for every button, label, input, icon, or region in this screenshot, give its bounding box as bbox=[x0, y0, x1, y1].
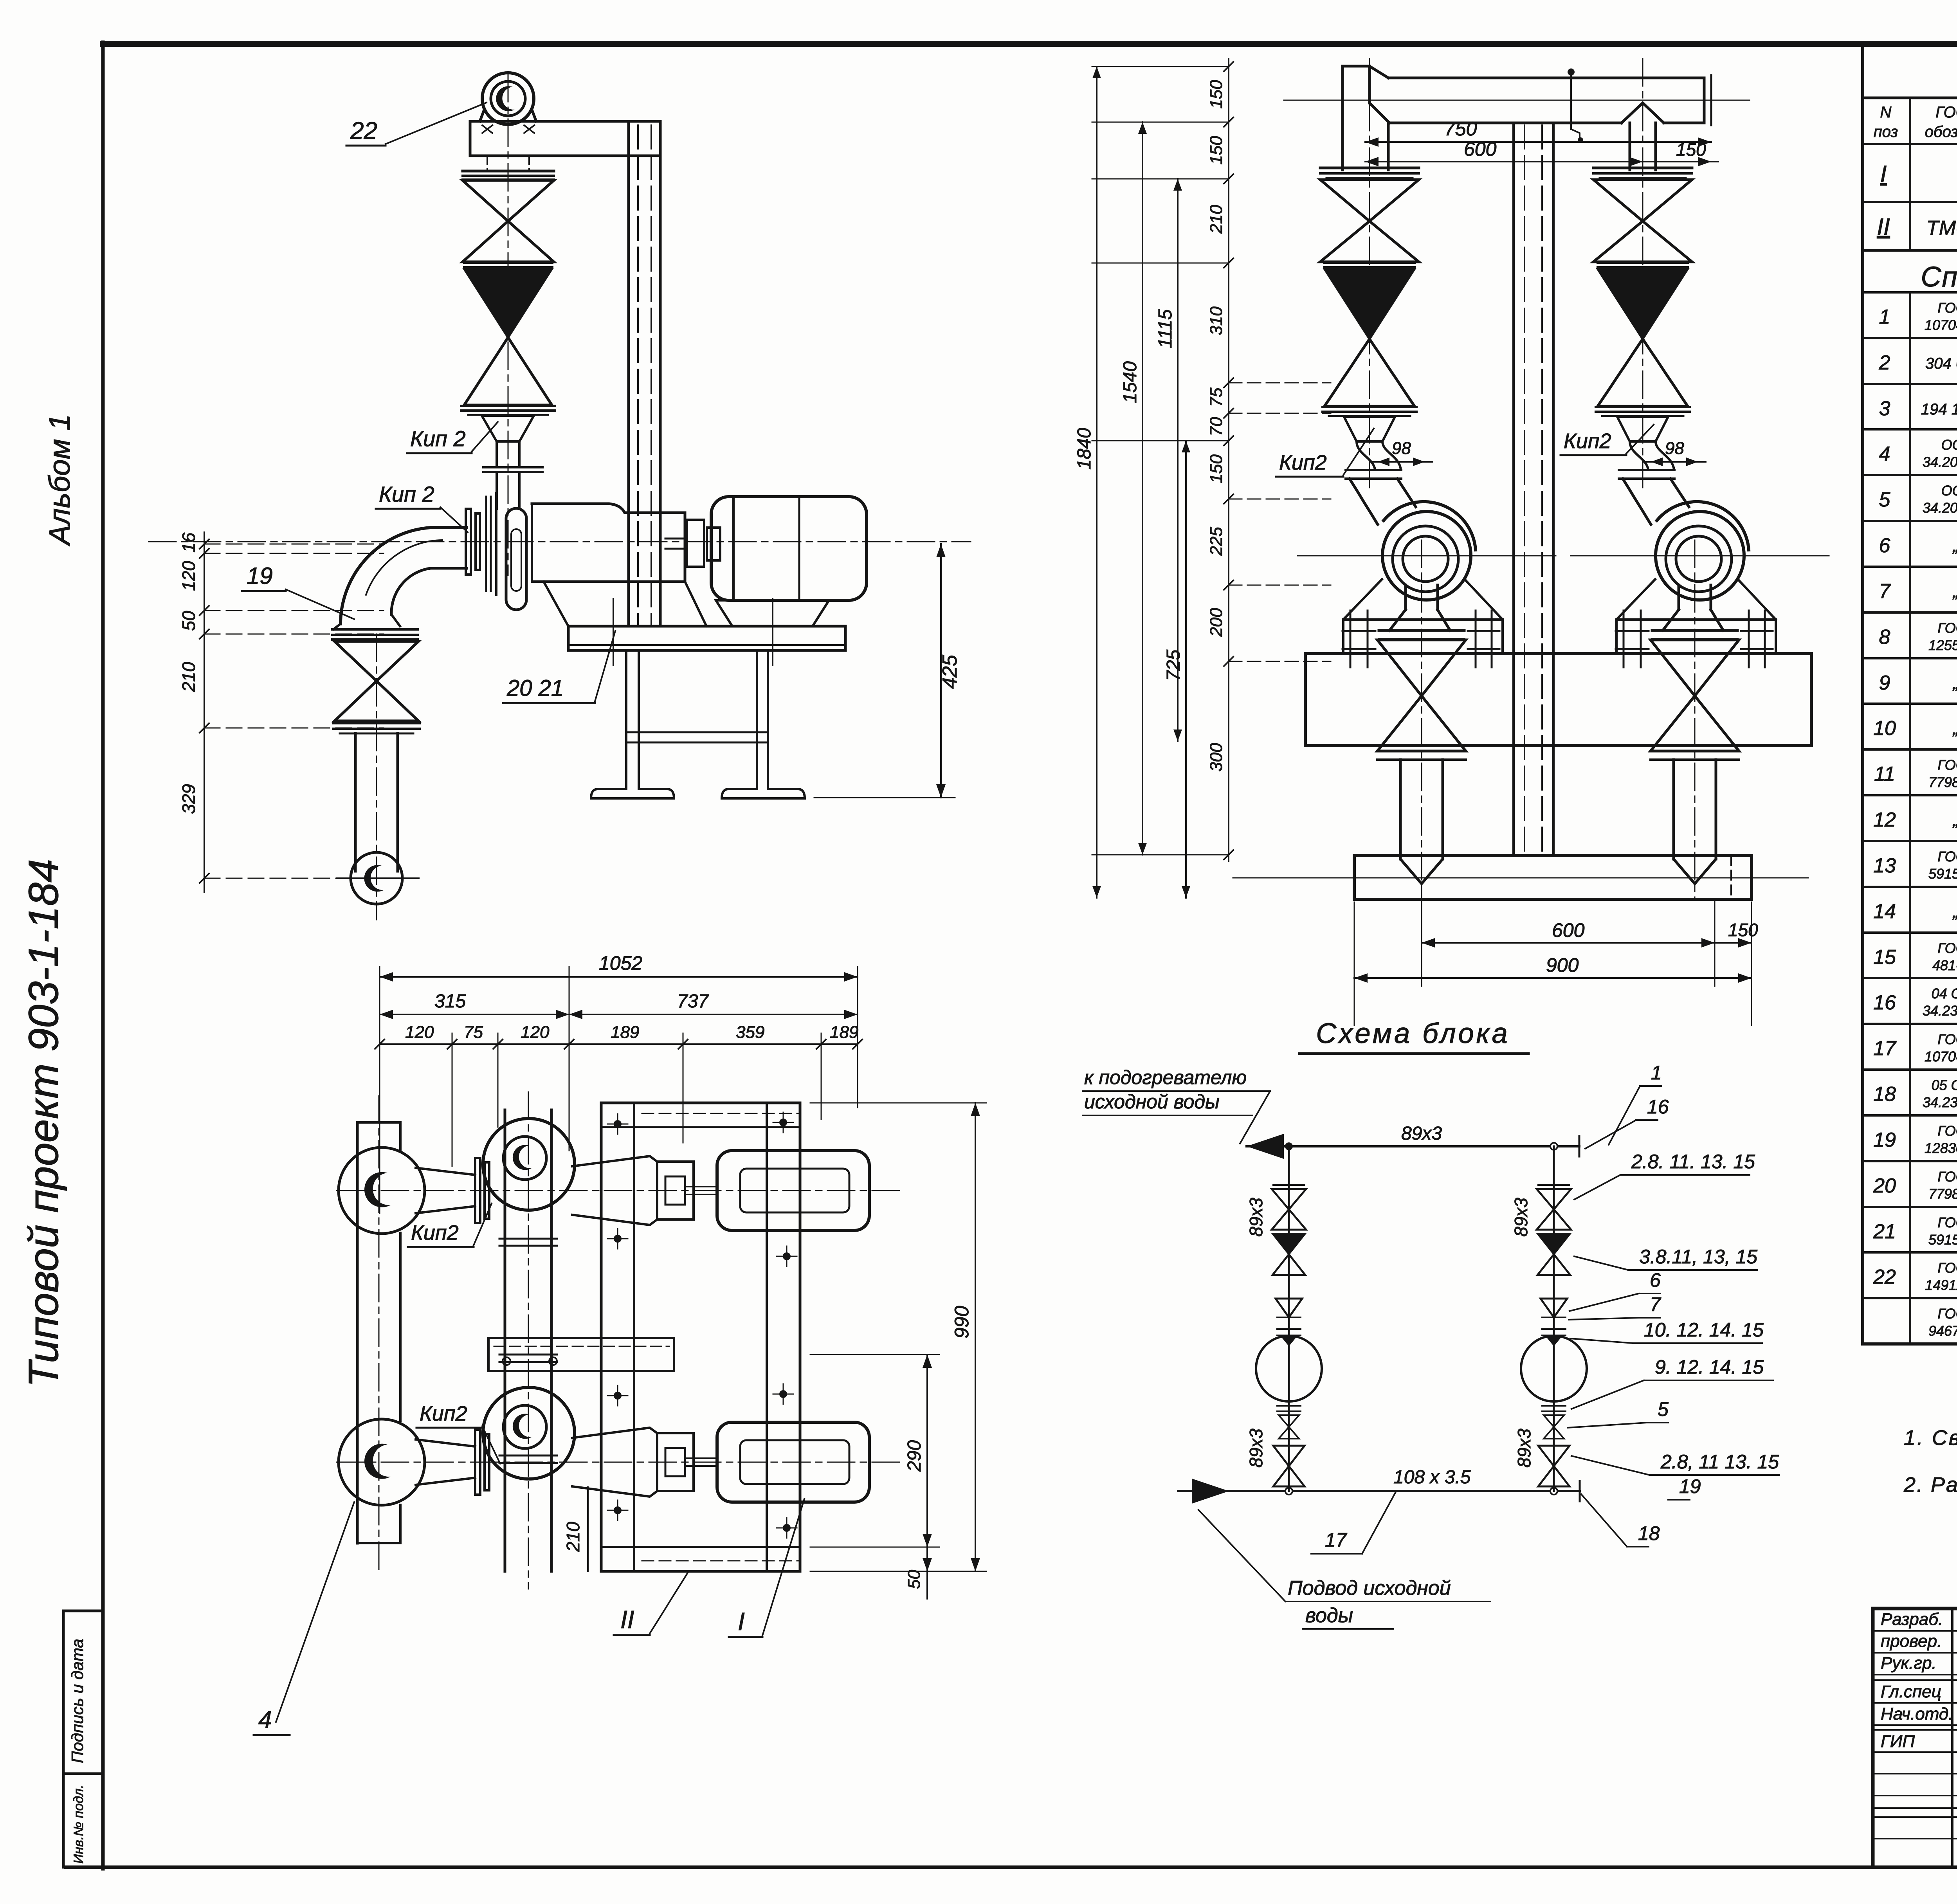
svg-text:Спецификация трубопроводов и: Спецификация трубопроводов и арматуры bbox=[1921, 261, 1957, 293]
svg-text:16: 16 bbox=[1873, 991, 1896, 1014]
svg-text:5: 5 bbox=[1879, 488, 1891, 511]
flange below check valve bbox=[461, 406, 555, 415]
svg-text:19: 19 bbox=[1679, 1475, 1701, 1497]
svg-text:189: 189 bbox=[830, 1023, 858, 1042]
svg-text:Подвод исходной: Подвод исходной bbox=[1288, 1577, 1451, 1600]
upper unit holddown bolts bbox=[607, 1112, 797, 1266]
svg-text:10. 12. 14. 15: 10. 12. 14. 15 bbox=[1644, 1319, 1764, 1341]
dim subdivision row bbox=[375, 1023, 862, 1049]
pump pedestal at 4343 bbox=[1616, 579, 1776, 652]
svg-text:ГОСТ: ГОСТ bbox=[1937, 940, 1957, 956]
left pump bbox=[1256, 1336, 1322, 1401]
svg-text:89х3: 89х3 bbox=[1511, 1198, 1531, 1237]
suction pipe centerline bbox=[376, 634, 377, 920]
top header 89x3 bbox=[1247, 1123, 1579, 1159]
dim 1540 bbox=[1120, 122, 1147, 855]
svg-text:425: 425 bbox=[939, 654, 961, 689]
support frame (plan) bbox=[601, 1103, 800, 1571]
svg-text:Кип2: Кип2 bbox=[411, 1221, 459, 1245]
table row 4 bbox=[1879, 437, 1957, 470]
svg-text:7798-70: 7798-70 bbox=[1928, 774, 1957, 790]
svg-text:600: 600 bbox=[1464, 138, 1497, 160]
table row 13 bbox=[1873, 848, 1957, 882]
svg-text:19: 19 bbox=[1873, 1129, 1896, 1151]
upper unit suction cone to pump bbox=[416, 1158, 489, 1223]
svg-text:6: 6 bbox=[1879, 534, 1890, 557]
svg-text:Гл.спец: Гл.спец bbox=[1881, 1682, 1941, 1701]
label 20 21 bbox=[503, 631, 615, 703]
note 1 bbox=[1904, 1426, 1957, 1450]
table row 21 bbox=[1873, 1214, 1957, 1248]
right check valve bbox=[1537, 1234, 1570, 1275]
svg-text:Кип 2: Кип 2 bbox=[379, 482, 434, 506]
svg-text:Кип2: Кип2 bbox=[420, 1402, 467, 1425]
pump inlet S-pipe at 3645 bbox=[1350, 479, 1416, 524]
lower unit pump volute (plan) bbox=[483, 1387, 575, 1479]
lower gate valve at 4330 bbox=[1651, 640, 1739, 751]
svg-text:Подпись и дата: Подпись и дата bbox=[68, 1639, 86, 1763]
schema title bbox=[1299, 1018, 1528, 1054]
svg-text:9: 9 bbox=[1879, 672, 1890, 694]
svg-text:120: 120 bbox=[521, 1023, 550, 1042]
table row 14 bbox=[1873, 898, 1957, 923]
pipe end with plug bbox=[337, 852, 419, 904]
svg-text:50: 50 bbox=[905, 1570, 924, 1589]
svg-text:ГИП: ГИП bbox=[1881, 1732, 1915, 1751]
elbow bottom flange bbox=[332, 629, 418, 639]
middle cross plate bbox=[488, 1338, 674, 1371]
svg-text:Кип2: Кип2 bbox=[1564, 429, 1611, 453]
rotated pipe labels 89x3 bbox=[1246, 1198, 1534, 1468]
svg-text:„: „ bbox=[1952, 719, 1957, 738]
svg-text:9467-75: 9467-75 bbox=[1928, 1323, 1957, 1339]
svg-text:20 21: 20 21 bbox=[506, 675, 564, 701]
svg-text:21: 21 bbox=[1873, 1220, 1896, 1243]
flange between valves bbox=[464, 263, 552, 267]
svg-text:Кип2: Кип2 bbox=[1279, 451, 1327, 474]
svg-text:20: 20 bbox=[1873, 1174, 1896, 1197]
svg-text:1. Сварные стыковые сое: 1. Сварные стыковые соединения трубопров… bbox=[1904, 1426, 1957, 1450]
svg-text:750: 750 bbox=[1444, 118, 1477, 140]
pump axis centerline bbox=[149, 541, 971, 542]
support beam bbox=[470, 121, 660, 171]
pump front view at 3645 bbox=[1297, 502, 1556, 630]
dim 1115 bbox=[1155, 179, 1182, 741]
svg-text:11: 11 bbox=[1874, 763, 1895, 785]
gate valve (pos 2) side view bbox=[463, 180, 554, 262]
side view dimension chain bbox=[200, 532, 384, 892]
dim 290 bbox=[810, 1355, 939, 1547]
dim 1052 bbox=[380, 952, 858, 982]
elbow 90 (pos 4/19) bbox=[333, 528, 467, 629]
svg-text:89х3: 89х3 bbox=[1401, 1123, 1442, 1144]
dim 1840 bbox=[1074, 67, 1101, 898]
FRONT VIEW dimensions bbox=[1074, 59, 1758, 1025]
label 4 bbox=[254, 1502, 354, 1735]
svg-text:воды: воды bbox=[1305, 1604, 1353, 1627]
svg-text:310: 310 bbox=[1207, 306, 1226, 335]
flange pair below beam bbox=[463, 171, 554, 180]
FRONT VIEW (two pump branches) bbox=[1233, 59, 1829, 900]
svg-text:ГОСТ: ГОСТ bbox=[1937, 1306, 1957, 1322]
left pump flange bbox=[1277, 1329, 1301, 1335]
dim 98 right bbox=[1643, 439, 1706, 466]
svg-text:Схема блока: Схема блока bbox=[1316, 1018, 1510, 1049]
label Kip2 plan upper bbox=[408, 1203, 492, 1247]
left branch line bbox=[1288, 1146, 1290, 1491]
svg-text:300: 300 bbox=[1207, 743, 1226, 772]
svg-text:6: 6 bbox=[1650, 1269, 1661, 1291]
lower unit elbow (plan) bbox=[339, 1419, 425, 1505]
svg-text:ТМ-40: ТМ-40 bbox=[1926, 217, 1957, 240]
svg-text:14911-69: 14911-69 bbox=[1925, 1277, 1957, 1293]
upper unit motor (plan) bbox=[717, 1151, 869, 1230]
PLAN VIEW bbox=[254, 952, 986, 1735]
svg-text:ГОСТ: ГОСТ bbox=[1935, 104, 1957, 121]
svg-text:2: 2 bbox=[1879, 351, 1890, 374]
dim 990 bbox=[810, 1103, 986, 1571]
table row 18 bbox=[1873, 1077, 1957, 1110]
svg-text:05 ОСТ: 05 ОСТ bbox=[1932, 1077, 1957, 1093]
svg-text:225: 225 bbox=[1207, 527, 1226, 556]
branch centerlines bbox=[1369, 59, 1370, 493]
right below pump fittings bbox=[1538, 1406, 1570, 1486]
svg-text:Инв.№ подл.: Инв.№ подл. bbox=[71, 1785, 86, 1864]
svg-text:10: 10 bbox=[1873, 717, 1896, 740]
flange below check (branch 3499) bbox=[1323, 407, 1416, 416]
left check valve bbox=[1272, 1234, 1305, 1275]
extension lines for top dims bbox=[380, 967, 858, 1213]
flange below check (branch 4197) bbox=[1596, 407, 1690, 416]
svg-text:200: 200 bbox=[1207, 608, 1226, 637]
suction flange at pump bbox=[483, 467, 542, 509]
right reducer bbox=[1541, 1299, 1567, 1317]
svg-text:„: „ bbox=[1952, 582, 1957, 601]
svg-text:„: „ bbox=[1952, 811, 1957, 830]
support column bbox=[629, 121, 660, 626]
svg-text:I: I bbox=[1880, 161, 1887, 187]
label Kip2 lower bbox=[376, 482, 468, 532]
svg-text:210: 210 bbox=[178, 662, 199, 692]
dim 900 bottom bbox=[1354, 954, 1752, 983]
svg-text:210: 210 bbox=[563, 1522, 583, 1552]
svg-text:7: 7 bbox=[1879, 580, 1891, 603]
svg-text:„: „ bbox=[1952, 536, 1957, 555]
leader label 9. 12. 14. 15 bbox=[1571, 1356, 1773, 1409]
lower gate valve at 3632 bbox=[1377, 640, 1466, 751]
upper unit elbow (plan) bbox=[339, 1147, 425, 1234]
pump casing side view bbox=[486, 493, 706, 626]
SIDE VIEW (pump unit, view from side) bbox=[149, 73, 971, 920]
table row 22 bbox=[1873, 1260, 1957, 1293]
pump pedestal at 3645 bbox=[1343, 579, 1503, 652]
drop pipe at 4330 bbox=[1651, 751, 1739, 884]
check valve (pos 3) filled bbox=[464, 269, 552, 405]
table row 5 bbox=[1879, 483, 1957, 516]
reducer pos5 (branch 4197) bbox=[1617, 417, 1674, 470]
flange under header (branch 3499) bbox=[1320, 168, 1419, 178]
table row 1 bbox=[1879, 300, 1957, 333]
table row 8 bbox=[1879, 620, 1957, 653]
svg-text:Разраб.: Разраб. bbox=[1881, 1610, 1943, 1629]
svg-text:2.8. 11. 13. 15: 2.8. 11. 13. 15 bbox=[1631, 1151, 1755, 1173]
leader label 2.8. 11. 13. 15 bbox=[1574, 1151, 1755, 1200]
svg-text:359: 359 bbox=[736, 1023, 764, 1042]
table row 20 bbox=[1873, 1169, 1957, 1202]
title block bbox=[1873, 1609, 1957, 1867]
svg-text:5: 5 bbox=[1658, 1398, 1669, 1420]
svg-text:1115: 1115 bbox=[1155, 309, 1176, 348]
svg-text:1052: 1052 bbox=[599, 952, 642, 974]
svg-text:150: 150 bbox=[1728, 920, 1758, 940]
note 2 bbox=[1903, 1473, 1957, 1497]
dim 750 top bbox=[1365, 118, 1711, 147]
svg-text:89х3: 89х3 bbox=[1246, 1428, 1266, 1468]
svg-text:900: 900 bbox=[1546, 954, 1579, 976]
table row 2 bbox=[1879, 349, 1957, 374]
svg-text:18: 18 bbox=[1873, 1083, 1896, 1106]
svg-text:ГОСТ: ГОСТ bbox=[1937, 1214, 1957, 1230]
margin stamp boxes bbox=[63, 1611, 103, 1867]
svg-text:7: 7 bbox=[1650, 1293, 1661, 1315]
left reducer bbox=[1276, 1299, 1302, 1317]
svg-text:ГОСТ: ГОСТ bbox=[1937, 848, 1957, 865]
suction pipe down bbox=[355, 733, 398, 871]
svg-text:75: 75 bbox=[464, 1023, 483, 1042]
gate valve pos2 (branch 4197) bbox=[1593, 180, 1692, 262]
album margin label bbox=[43, 414, 76, 546]
svg-text:провер.: провер. bbox=[1881, 1632, 1942, 1651]
right pump flange bbox=[1542, 1329, 1566, 1335]
label Kip2 front left bbox=[1276, 429, 1374, 477]
svg-text:315: 315 bbox=[434, 991, 466, 1012]
check valve pos3 (branch 4197) bbox=[1598, 269, 1688, 406]
svg-text:обознач.: обознач. bbox=[1925, 123, 1957, 141]
svg-text:189: 189 bbox=[611, 1023, 639, 1042]
gate valve on suction bbox=[335, 641, 418, 721]
pump inlet flange bbox=[466, 509, 480, 575]
pedestal bolts at 4343 bbox=[1616, 611, 1773, 667]
svg-text:98: 98 bbox=[1665, 439, 1684, 458]
svg-text:150: 150 bbox=[1676, 139, 1706, 160]
pump front view at 4343 bbox=[1571, 502, 1829, 630]
upper unit axis centerline bbox=[337, 1190, 900, 1191]
svg-text:1: 1 bbox=[1651, 1062, 1662, 1084]
lower unit suction cone to pump bbox=[416, 1430, 489, 1495]
dim 600 top bbox=[1365, 138, 1643, 166]
svg-text:поз: поз bbox=[1874, 123, 1898, 141]
svg-text:108 х 3.5: 108 х 3.5 bbox=[1393, 1467, 1471, 1488]
svg-text:89х3: 89х3 bbox=[1514, 1428, 1534, 1468]
reducer (pos 5) bbox=[482, 416, 534, 467]
table row 19 bbox=[1873, 1123, 1957, 1156]
svg-text:150: 150 bbox=[1207, 454, 1226, 483]
svg-text:990: 990 bbox=[951, 1306, 973, 1338]
label II bbox=[614, 1572, 688, 1635]
svg-text:304 6 бр: 304 6 бр bbox=[1925, 355, 1957, 372]
flange below suction valve bbox=[333, 723, 420, 733]
svg-text:9. 12. 14. 15: 9. 12. 14. 15 bbox=[1655, 1356, 1764, 1378]
table row 7 bbox=[1879, 578, 1957, 603]
svg-text:Альбом 1: Альбом 1 bbox=[43, 414, 76, 546]
central support column bbox=[1514, 123, 1553, 855]
svg-text:ГОСТ: ГОСТ bbox=[1937, 1260, 1957, 1276]
leader label 10. 12. 14. 15 bbox=[1570, 1319, 1764, 1343]
valve stack vertical centerline bbox=[508, 74, 509, 575]
svg-text:3: 3 bbox=[1879, 397, 1890, 420]
left gate valve top bbox=[1272, 1185, 1306, 1230]
svg-text:725: 725 bbox=[1163, 650, 1184, 681]
lower unit motor (plan) bbox=[717, 1422, 869, 1502]
svg-text:Нач.отд.: Нач.отд. bbox=[1881, 1704, 1953, 1724]
BLOCK SCHEMA bbox=[1083, 1018, 1779, 1629]
dim 98 left bbox=[1370, 439, 1433, 466]
svg-text:16: 16 bbox=[1647, 1096, 1669, 1118]
table row 16 bbox=[1873, 985, 1957, 1019]
svg-text:„: „ bbox=[1952, 902, 1957, 921]
suction header pipe bbox=[1284, 66, 1750, 170]
svg-text:12: 12 bbox=[1873, 809, 1896, 831]
pump inlet small flange at 4343 bbox=[1619, 470, 1674, 479]
table row 11 bbox=[1874, 757, 1957, 790]
left header pipe (plan) bbox=[357, 1096, 400, 1569]
lower unit axis centerline bbox=[337, 1462, 900, 1463]
svg-text:04 ОСТ: 04 ОСТ bbox=[1932, 985, 1957, 1002]
svg-text:17: 17 bbox=[1325, 1529, 1348, 1551]
label 19 bbox=[242, 563, 354, 619]
svg-text:150: 150 bbox=[1207, 80, 1226, 109]
bottom header centerline bbox=[1233, 877, 1808, 879]
svg-text:4: 4 bbox=[258, 1706, 272, 1733]
to heater note bbox=[1083, 1066, 1270, 1144]
svg-text:22: 22 bbox=[1873, 1266, 1896, 1288]
svg-text:10704-76: 10704-76 bbox=[1925, 317, 1957, 333]
svg-text:Типовой проект 903-1-184: Типовой проект 903-1-184 bbox=[20, 859, 67, 1387]
table row 15 bbox=[1873, 940, 1957, 973]
table row 6 bbox=[1879, 532, 1957, 557]
svg-text:14: 14 bbox=[1873, 900, 1896, 923]
lower unit holddown bolts bbox=[607, 1384, 797, 1538]
leader label 16 bbox=[1585, 1096, 1669, 1149]
header labels bbox=[1874, 101, 1957, 142]
upper unit pump volute (plan) bbox=[483, 1119, 575, 1210]
support frame beam (front) bbox=[1305, 654, 1811, 746]
leader label 1 bbox=[1609, 1062, 1662, 1145]
leader label 6 bbox=[1570, 1269, 1661, 1311]
leader label 17 bbox=[1311, 1493, 1395, 1554]
svg-text:1840: 1840 bbox=[1074, 428, 1095, 470]
svg-text:34.204-73: 34.204-73 bbox=[1923, 454, 1957, 470]
svg-text:34.233-73: 34.233-73 bbox=[1923, 1094, 1957, 1110]
specification table bbox=[1863, 44, 1957, 1344]
svg-text:к подогревателю: к подогревателю bbox=[1084, 1066, 1247, 1088]
label Kip2 plan lower bbox=[416, 1402, 500, 1464]
dim 50 bbox=[905, 1547, 932, 1599]
bottom header pipe 108x3.5 bbox=[1354, 856, 1752, 899]
svg-text:15: 15 bbox=[1873, 946, 1896, 969]
svg-text:исходной воды: исходной воды bbox=[1084, 1091, 1220, 1113]
baseplate (pos II frame) bbox=[568, 599, 845, 798]
pump inlet S-pipe at 4343 bbox=[1623, 479, 1689, 524]
svg-text:Рук.гр.: Рук.гр. bbox=[1881, 1654, 1937, 1673]
svg-text:18: 18 bbox=[1638, 1522, 1660, 1544]
svg-text:N: N bbox=[1880, 104, 1892, 121]
flange mid (branch 3499) bbox=[1324, 263, 1415, 267]
table row electrodes bbox=[1928, 1306, 1957, 1339]
svg-text:10704-76: 10704-76 bbox=[1925, 1048, 1957, 1065]
label I bbox=[729, 1499, 804, 1637]
svg-text:I: I bbox=[738, 1607, 745, 1636]
svg-text:2.8, 11 13. 15: 2.8, 11 13. 15 bbox=[1660, 1451, 1779, 1473]
upper unit pump bracket bbox=[572, 1156, 717, 1225]
dim 210 plan bbox=[563, 1487, 588, 1571]
svg-text:ГОСТ: ГОСТ bbox=[1937, 1123, 1957, 1139]
label 22 bbox=[346, 103, 487, 146]
svg-text:ОСТ: ОСТ bbox=[1941, 483, 1957, 499]
flange under header (branch 4197) bbox=[1593, 168, 1692, 178]
label Kip2 upper bbox=[407, 422, 498, 453]
svg-text:70: 70 bbox=[1207, 417, 1226, 436]
dim 150 top bbox=[1643, 139, 1718, 166]
svg-text:98: 98 bbox=[1392, 439, 1411, 458]
svg-text:ГОСТ: ГОСТ bbox=[1937, 757, 1957, 773]
svg-text:89х3: 89х3 bbox=[1246, 1198, 1266, 1237]
svg-text:„: „ bbox=[1952, 674, 1957, 693]
header instrument tap bbox=[1568, 68, 1583, 143]
table row 9 bbox=[1879, 670, 1957, 694]
svg-text:5915-70: 5915-70 bbox=[1928, 1232, 1957, 1248]
svg-text:210: 210 bbox=[1207, 205, 1226, 234]
svg-text:150: 150 bbox=[1207, 136, 1226, 165]
pump inlet small flange at 3645 bbox=[1346, 470, 1401, 479]
svg-text:120: 120 bbox=[178, 561, 199, 591]
support OPB-2 (pos 22) hook bbox=[480, 73, 536, 124]
leader label 18 bbox=[1581, 1494, 1660, 1547]
gate valve pos2 (branch 3499) bbox=[1320, 180, 1419, 262]
discharge flange at 4330 bbox=[1652, 630, 1737, 639]
svg-text:3.8.11, 13, 15: 3.8.11, 13, 15 bbox=[1639, 1246, 1757, 1268]
svg-text:II: II bbox=[620, 1605, 634, 1634]
lower unit pump bracket bbox=[572, 1428, 717, 1497]
pedestal bolts at 3645 bbox=[1343, 611, 1499, 667]
svg-text:75: 75 bbox=[1207, 387, 1226, 407]
svg-text:5915-70: 5915-70 bbox=[1928, 866, 1957, 882]
svg-text:34.233-73: 34.233-73 bbox=[1923, 1003, 1957, 1019]
svg-text:Кип 2: Кип 2 bbox=[410, 426, 466, 451]
svg-text:13: 13 bbox=[1873, 854, 1896, 877]
inlet note bbox=[1198, 1510, 1490, 1629]
svg-text:600: 600 bbox=[1552, 919, 1585, 941]
leader label 7 bbox=[1569, 1293, 1661, 1320]
table row 3 bbox=[1879, 395, 1957, 420]
svg-text:737: 737 bbox=[677, 991, 709, 1012]
right gate valve top bbox=[1537, 1185, 1571, 1230]
riser pipe in plan bbox=[499, 1092, 557, 1589]
leader label 5 bbox=[1568, 1398, 1669, 1428]
left below pump fittings bbox=[1273, 1406, 1305, 1486]
svg-text:7798-70: 7798-70 bbox=[1928, 1186, 1957, 1202]
svg-text:ГОСТ: ГОСТ bbox=[1937, 620, 1957, 636]
svg-text:2. Рабочие параметры: Р =: 2. Рабочие параметры: Р = 5.5 кгс /см ² … bbox=[1903, 1473, 1957, 1497]
svg-text:34.209-73: 34.209-73 bbox=[1923, 500, 1957, 516]
svg-text:17: 17 bbox=[1873, 1037, 1897, 1060]
right branch line bbox=[1553, 1146, 1555, 1491]
bottom dim extension lines bbox=[1354, 888, 1752, 1025]
table row 10 bbox=[1873, 715, 1957, 740]
svg-text:50: 50 bbox=[178, 611, 199, 631]
reducer pos5 (branch 3499) bbox=[1344, 417, 1401, 470]
svg-text:1: 1 bbox=[1879, 306, 1890, 328]
